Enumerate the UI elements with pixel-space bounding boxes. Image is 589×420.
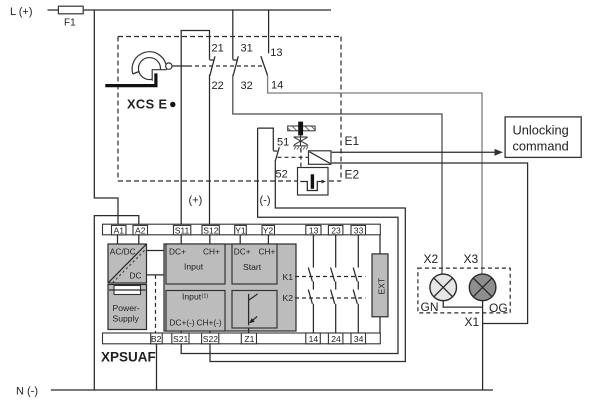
lamp enclosure (dashed) [418,268,510,313]
label XCS E [127,97,176,112]
terminal 13 [306,225,321,235]
fuse F1 [58,6,83,28]
terminal A2 [133,225,148,235]
svg-text:13: 13 [309,225,319,235]
svg-text:DC+: DC+ [234,247,251,257]
terminal Y1 [235,225,247,235]
svg-text:Power-: Power- [113,303,140,313]
svg-text:Z1: Z1 [244,334,254,344]
stub S21 [180,331,182,333]
terminal Z1 [241,333,256,344]
svg-text:XCS E: XCS E [127,97,167,112]
wire S22 return from contact 52 [210,160,405,362]
svg-text:23: 23 [331,225,341,235]
terminal S22 [202,333,219,344]
wire DC dashed to B2 [155,275,157,333]
svg-text:22: 22 [212,80,224,92]
terminal 23 [328,225,343,235]
spring [293,135,308,149]
svg-text:X3: X3 [464,252,479,266]
contact 13/14 (NO) [261,47,283,92]
terminal B2 [151,333,163,344]
svg-text:Input: Input [182,292,202,302]
wire top rail [48,9,332,11]
panel main grey [164,244,296,331]
svg-text:L (+): L (+) [10,6,33,18]
svg-text:K1: K1 [283,272,294,282]
wire N rail [51,389,493,391]
svg-text:CH+(-): CH+(-) [197,318,222,328]
svg-text:N (-): N (-) [16,386,38,398]
svg-text:F1: F1 [64,18,76,29]
svg-text:32: 32 [241,80,253,92]
lamp X3 (OG) [469,274,496,301]
svg-text:E1: E1 [345,134,360,148]
terminal S12 [202,225,219,235]
wire S21 return (-) [181,128,398,353]
svg-text:S22: S22 [203,334,219,344]
svg-text:(+): (+) [189,195,203,207]
module terminal band bottom [103,333,381,344]
svg-text:DC+(-): DC+(-) [170,318,195,328]
svg-text:X2: X2 [424,252,439,266]
svg-text:DC+: DC+ [169,247,186,257]
svg-text:CH+: CH+ [259,247,276,257]
stub S12 to input [209,235,211,244]
mech link contact 51 to solenoid (dashed) [278,156,309,158]
svg-text:52: 52 [276,169,288,181]
wire 31 drop from rail [232,10,234,60]
wire B2 to N rail [156,344,158,390]
svg-text:Supply: Supply [113,314,140,324]
block Input(1) [166,291,225,332]
stub S22 [209,331,211,333]
stub Y2 to start [267,235,269,244]
K1 linkage (dashed) [295,276,366,278]
svg-text:K2: K2 [283,293,294,303]
terminal Y2 [262,225,275,235]
wire L+ drop to A1 [94,10,118,224]
block output switch [232,291,277,329]
contact 51/52 feed [258,128,274,150]
terminal 34 [351,333,366,344]
contact K1/K2 column 33-34 [353,235,358,333]
terminal 24 [328,333,343,344]
svg-text:XPSUAF: XPSUAF [101,350,156,365]
svg-text:GN: GN [421,300,439,314]
svg-text:13: 13 [270,47,282,59]
wire 14 to lamp X3 [268,76,482,275]
stub Z1 to switch block [248,328,250,333]
svg-text:33: 33 [354,225,364,235]
svg-text:51: 51 [277,137,289,149]
wire 13 drop from rail [268,10,270,53]
svg-text:EXT: EXT [377,277,387,294]
wire E2 to X1 [332,163,528,324]
svg-text:S21: S21 [173,334,189,344]
XCS E enclosure (dashed) [118,37,341,182]
lamp X2 (GN) [430,274,457,301]
svg-text:X1: X1 [465,315,480,329]
wire S11 riser with jog to contact 21 [181,31,209,225]
svg-text:(-): (-) [260,195,271,207]
contact 51/52 (NC) [273,137,289,181]
stub A2 to AC/DC [138,235,140,244]
svg-text:Start: Start [243,262,262,272]
stub Y1 to start [239,235,241,244]
svg-text:24: 24 [331,334,341,344]
stub A1 to AC/DC [117,235,119,244]
block power supply [108,285,147,330]
svg-text:OG: OG [489,301,508,315]
locking bolt [298,122,303,136]
wire E1 arrow to unlocking command [332,149,503,156]
contact K1/K2 column 13-14 [308,235,313,333]
svg-text:14: 14 [309,334,319,344]
svg-text:E2: E2 [345,168,360,182]
wire DC output [147,274,165,276]
module terminal band top [103,224,381,235]
terminal 14 [306,333,321,344]
svg-text:Unlocking: Unlocking [513,123,569,138]
svg-text:S11: S11 [175,225,190,235]
svg-text:Input: Input [184,262,204,272]
svg-text:21: 21 [212,43,224,55]
svg-text:14: 14 [271,80,283,92]
wire lamp common to N rail [443,301,482,390]
svg-text:S12: S12 [203,225,219,235]
svg-text:A2: A2 [135,225,146,235]
svg-text:Y2: Y2 [263,225,274,235]
contact 31/32 (NC) [233,43,253,93]
block Input [166,244,225,284]
terminal 33 [351,225,366,235]
block Start [232,244,277,284]
svg-text:34: 34 [354,334,364,344]
svg-text:AC/DC: AC/DC [110,247,136,257]
svg-text:A1: A1 [114,225,125,235]
wire S12 riser from contact 22 [209,75,211,225]
solenoid guide (hatched bar) [288,126,315,131]
block AC/DC converter [108,244,147,283]
K2 linkage (dashed) [295,297,366,299]
block EXT [372,235,388,333]
solenoid coil box [309,151,332,165]
terminal A1 [112,225,127,235]
wire 32 to lamp X2 [233,75,442,275]
contact 21/22 (NC) [210,43,224,93]
switch XCS E cam [105,52,172,86]
svg-text:command: command [513,139,569,154]
wire A2 to N rail [94,216,139,390]
terminal S21 [172,333,189,344]
fuse inside power supply [109,286,146,295]
mechanical link cam to contacts (dashed) [172,65,264,67]
svg-text:Y1: Y1 [235,225,246,235]
contact K1/K2 column 23-24 [331,235,336,333]
svg-text:CH+: CH+ [203,247,220,257]
svg-text:B2: B2 [151,334,162,344]
svg-text:(1): (1) [202,294,209,300]
svg-text:31: 31 [241,43,253,55]
svg-text:DC: DC [130,271,142,281]
terminal S11 [174,225,191,235]
mech link spring to key box (dashed) [300,149,302,167]
key release box E2 symbol [298,168,329,196]
stub S11 to input [180,235,182,244]
box Unlocking command [505,117,581,157]
wire AC/DC to input block [147,250,166,252]
